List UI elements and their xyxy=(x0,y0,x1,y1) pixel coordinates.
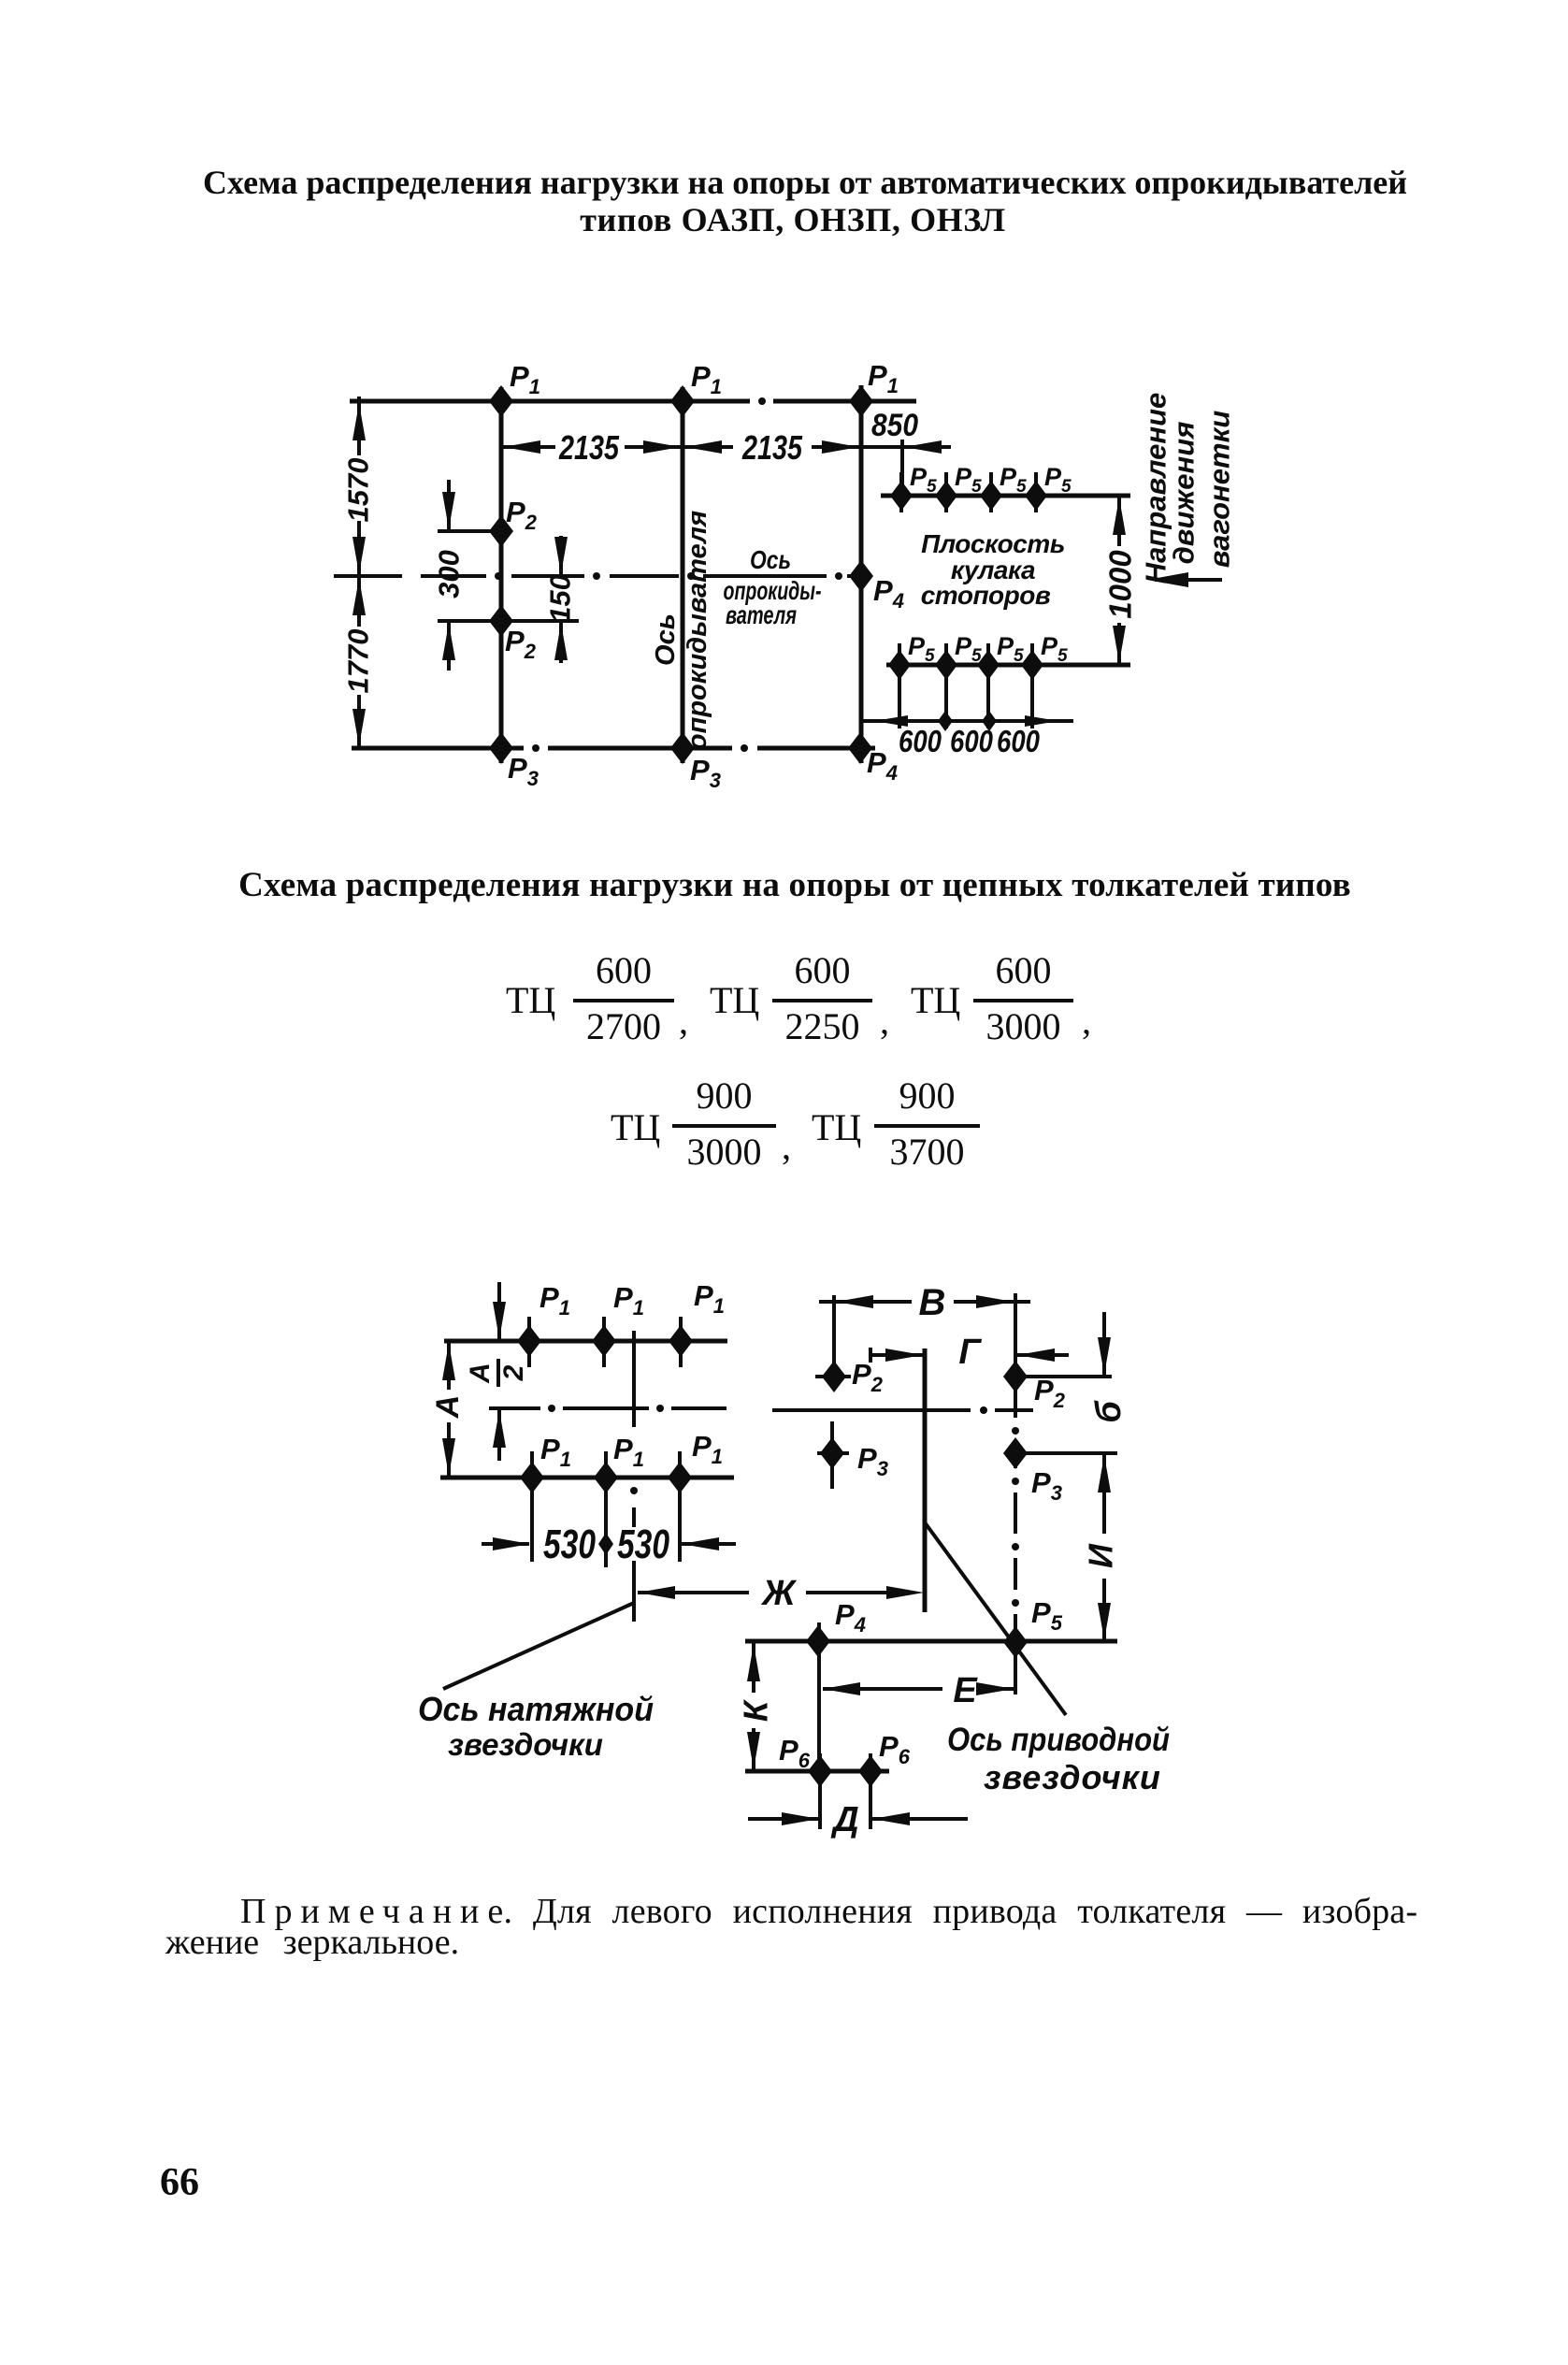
svg-text:1770: 1770 xyxy=(342,629,375,694)
wire: P6 row xyxy=(745,1769,889,1774)
svg-text:А: А xyxy=(465,1363,496,1384)
svg-text:Р1: Р1 xyxy=(539,1281,570,1319)
wire: lower P5 stop row xyxy=(886,663,1130,668)
svg-text:К: К xyxy=(737,1698,775,1722)
svg-text:Д: Д xyxy=(830,1800,858,1839)
svg-text:2: 2 xyxy=(498,1364,529,1381)
svg-text:Р1: Р1 xyxy=(613,1281,644,1319)
dimension 1000 vertical xyxy=(1103,496,1138,665)
dimension 150 with outside arrows xyxy=(438,536,579,663)
dimension 1770 left vertical with arrows xyxy=(342,576,375,748)
node P4 on axis xyxy=(849,560,904,613)
svg-text:Ось приводной: Ось приводной xyxy=(947,1722,1170,1758)
svg-text:Р2: Р2 xyxy=(505,625,537,663)
label: Ось приводной звездочки xyxy=(947,1722,1170,1796)
svg-text:И: И xyxy=(1082,1543,1120,1568)
section heading 2 xyxy=(237,865,1352,905)
svg-text:Е: Е xyxy=(953,1671,978,1710)
svg-text:Р5: Р5 xyxy=(1044,463,1072,497)
svg-text:2135: 2135 xyxy=(741,428,803,467)
svg-text:Р1: Р1 xyxy=(540,1433,571,1471)
wire: tipper column 3 vertical xyxy=(859,385,864,763)
node P2 upper xyxy=(489,496,538,547)
dimension Ж horizontal xyxy=(638,1574,924,1613)
svg-text:Р5: Р5 xyxy=(908,632,935,666)
svg-text:Р2: Р2 xyxy=(852,1358,884,1396)
svg-text:Р3: Р3 xyxy=(857,1442,888,1480)
svg-text:Р1: Р1 xyxy=(694,1279,725,1318)
label: Ось натяжной звездочки xyxy=(418,1690,654,1762)
svg-text:300: 300 xyxy=(433,550,466,598)
dimension Б vertical (rotated label) xyxy=(1089,1312,1129,1423)
page number 66 xyxy=(160,2160,199,2205)
svg-text:600: 600 xyxy=(997,724,1041,758)
dimension 2135 (second span) xyxy=(741,428,861,467)
svg-text:150: 150 xyxy=(544,574,577,623)
svg-text:стопоров: стопоров xyxy=(921,581,1051,610)
arrow: direction of wagon movement xyxy=(1147,572,1222,587)
svg-text:В: В xyxy=(919,1282,946,1323)
wire: tension sprocket centerline dash-dot xyxy=(630,1331,638,1622)
dimension Д horizontal xyxy=(748,1800,968,1839)
svg-text:Р1: Р1 xyxy=(510,360,540,398)
svg-text:530: 530 xyxy=(543,1521,596,1567)
svg-text:600: 600 xyxy=(950,724,994,758)
svg-text:Р4: Р4 xyxy=(873,574,904,613)
node P1 column 3 xyxy=(849,359,899,417)
svg-text:Р3: Р3 xyxy=(1031,1466,1062,1505)
dimension 2135 (first span) xyxy=(503,428,733,467)
svg-text:530: 530 xyxy=(617,1521,669,1567)
wire: drive sprocket vertical centerline xyxy=(923,1348,928,1612)
label: Плоскость кулака стопоров xyxy=(921,529,1065,610)
svg-text:600: 600 xyxy=(899,724,942,758)
dimension 850 xyxy=(822,408,951,499)
wire: upper P5 stop row xyxy=(881,494,1130,498)
node P3 left xyxy=(817,1421,888,1489)
dimension И vertical (rotated label) xyxy=(1082,1455,1120,1642)
wire: tipper column 2 vertical (ось опрокидывателя) xyxy=(681,387,685,763)
dimension A vertical xyxy=(430,1341,466,1478)
svg-text:Р1: Р1 xyxy=(868,359,899,397)
svg-text:Р5: Р5 xyxy=(1031,1596,1063,1635)
node P2 right xyxy=(1003,1361,1112,1412)
svg-text:Р1: Р1 xyxy=(613,1433,644,1471)
node P5 (pusher) xyxy=(1003,1596,1063,1658)
svg-text:Г: Г xyxy=(958,1333,982,1372)
svg-text:б: б xyxy=(1089,1400,1129,1423)
node P1 column 1 xyxy=(489,360,540,417)
node P6 right with extension xyxy=(858,1730,911,1829)
formula row 1 xyxy=(506,978,555,1022)
label A/2 fraction (rotated) xyxy=(465,1359,529,1387)
svg-text:Р5: Р5 xyxy=(1000,463,1027,497)
page title line 1 xyxy=(201,163,1409,202)
label: Ось опрокиды-вателя (horizontal at axis) xyxy=(724,545,822,629)
svg-text:850: 850 xyxy=(871,408,918,443)
dimension 600 600 600 chain xyxy=(861,711,1073,758)
svg-text:Р2: Р2 xyxy=(506,496,538,534)
node P4 (pusher) xyxy=(806,1598,866,1771)
wire: tipper column 1 vertical xyxy=(499,387,504,763)
svg-text:вателя: вателя xyxy=(726,600,797,629)
svg-text:вагонетки: вагонетки xyxy=(1203,411,1236,569)
dimension Е horizontal xyxy=(823,1650,1015,1710)
svg-text:Р5: Р5 xyxy=(997,632,1024,666)
wire: pusher axis dash-dot (right block) xyxy=(772,1406,1033,1414)
formula row 2 xyxy=(611,1105,660,1149)
svg-text:2135: 2135 xyxy=(558,428,620,467)
leader line to drive sprocket axis label xyxy=(925,1522,1066,1715)
dimension A/2 with outside arrows xyxy=(493,1282,506,1461)
svg-text:Ж: Ж xyxy=(760,1574,797,1613)
svg-text:звездочки: звездочки xyxy=(984,1758,1161,1796)
wire: P4-P5 row xyxy=(745,1639,1117,1644)
wire: upper P1 row (pusher) xyxy=(444,1339,727,1344)
svg-text:Р1: Р1 xyxy=(692,1430,723,1468)
dimension 300 with outside arrows xyxy=(433,480,502,671)
svg-text:Р3: Р3 xyxy=(690,754,721,792)
dimension К vertical (rotated label) xyxy=(737,1642,775,1771)
svg-text:Р6: Р6 xyxy=(779,1734,811,1772)
svg-text:Ось: Ось xyxy=(750,545,791,574)
svg-text:движения: движения xyxy=(1168,422,1201,565)
leader line to tension sprocket axis label xyxy=(443,1603,634,1689)
nodes P5 upper row xyxy=(890,463,1072,512)
svg-text:Р5: Р5 xyxy=(955,463,982,497)
node P2 left xyxy=(815,1358,884,1396)
svg-text:опрокидывателя: опрокидывателя xyxy=(683,511,712,750)
svg-text:Р3: Р3 xyxy=(508,752,539,790)
svg-text:Р5: Р5 xyxy=(910,463,937,497)
node P2 lower xyxy=(489,605,537,663)
node P1 column 2 xyxy=(670,360,722,417)
svg-text:Ось натяжной: Ось натяжной xyxy=(418,1690,654,1728)
svg-text:Р1: Р1 xyxy=(691,360,722,398)
svg-text:Ось: Ось xyxy=(651,613,681,666)
svg-text:1570: 1570 xyxy=(342,458,375,523)
svg-text:Р4: Р4 xyxy=(835,1598,866,1637)
node P3 column 2 xyxy=(670,732,721,792)
svg-text:Р4: Р4 xyxy=(867,746,898,785)
wire: pusher axis dash-dot (left block) xyxy=(489,1405,726,1412)
node P6 left with extension xyxy=(779,1734,832,1829)
wire: top load line P1 row xyxy=(350,397,916,405)
svg-text:Р2: Р2 xyxy=(1034,1374,1066,1412)
label: Направление движения вагонетки (rotated) xyxy=(1140,393,1236,584)
label: Ось опрокидывателя (vertical along column 2) xyxy=(651,511,712,750)
dimension 530 + 530 chain xyxy=(482,1521,736,1567)
nodes P1 lower row xyxy=(520,1430,723,1567)
svg-text:Р6: Р6 xyxy=(879,1730,911,1768)
wire: horizontal tipper axis dash-dot line xyxy=(334,572,860,580)
node P3 right xyxy=(1003,1437,1117,1505)
node P4 bottom xyxy=(848,732,898,785)
wire: P2-P3-P5 dash-dot column xyxy=(1012,1388,1019,1637)
wire: lower P1 row (pusher) xyxy=(440,1476,734,1480)
svg-text:звездочки: звездочки xyxy=(448,1727,603,1762)
dimension 1570 left vertical with arrows xyxy=(342,397,375,576)
note paragraph xyxy=(240,1891,1417,1932)
svg-text:Р5: Р5 xyxy=(1041,632,1068,666)
svg-text:1000: 1000 xyxy=(1103,550,1138,619)
wire: bottom load line P3-P4 row xyxy=(352,744,875,752)
node P3 column 1 xyxy=(489,732,539,790)
nodes P5 lower row with extension lines xyxy=(888,632,1068,728)
nodes P1 upper row xyxy=(517,1279,725,1367)
dimension Г (two outside arrows) xyxy=(870,1333,1069,1372)
svg-text:А: А xyxy=(430,1395,466,1420)
svg-text:Р5: Р5 xyxy=(955,632,982,666)
dimension B horizontal xyxy=(819,1282,1030,1377)
page title line 2 xyxy=(201,200,1385,239)
svg-text:Плоскость: Плоскость xyxy=(921,529,1065,558)
